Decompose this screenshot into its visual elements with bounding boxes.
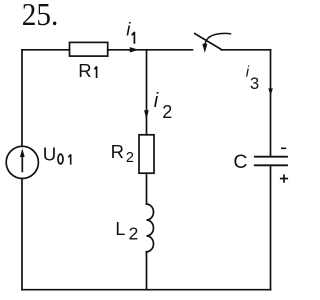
svg-text:3: 3: [250, 75, 259, 93]
svg-text:25.: 25.: [22, 0, 59, 32]
svg-text:C: C: [233, 151, 247, 173]
svg-text:2: 2: [162, 102, 172, 122]
svg-text:U: U: [43, 143, 57, 164]
svg-text:R: R: [78, 60, 91, 81]
svg-text:2: 2: [129, 224, 139, 244]
svg-text:2: 2: [126, 150, 134, 166]
svg-text:R: R: [111, 141, 124, 162]
svg-text:i: i: [154, 90, 159, 112]
svg-text:L: L: [115, 219, 125, 239]
